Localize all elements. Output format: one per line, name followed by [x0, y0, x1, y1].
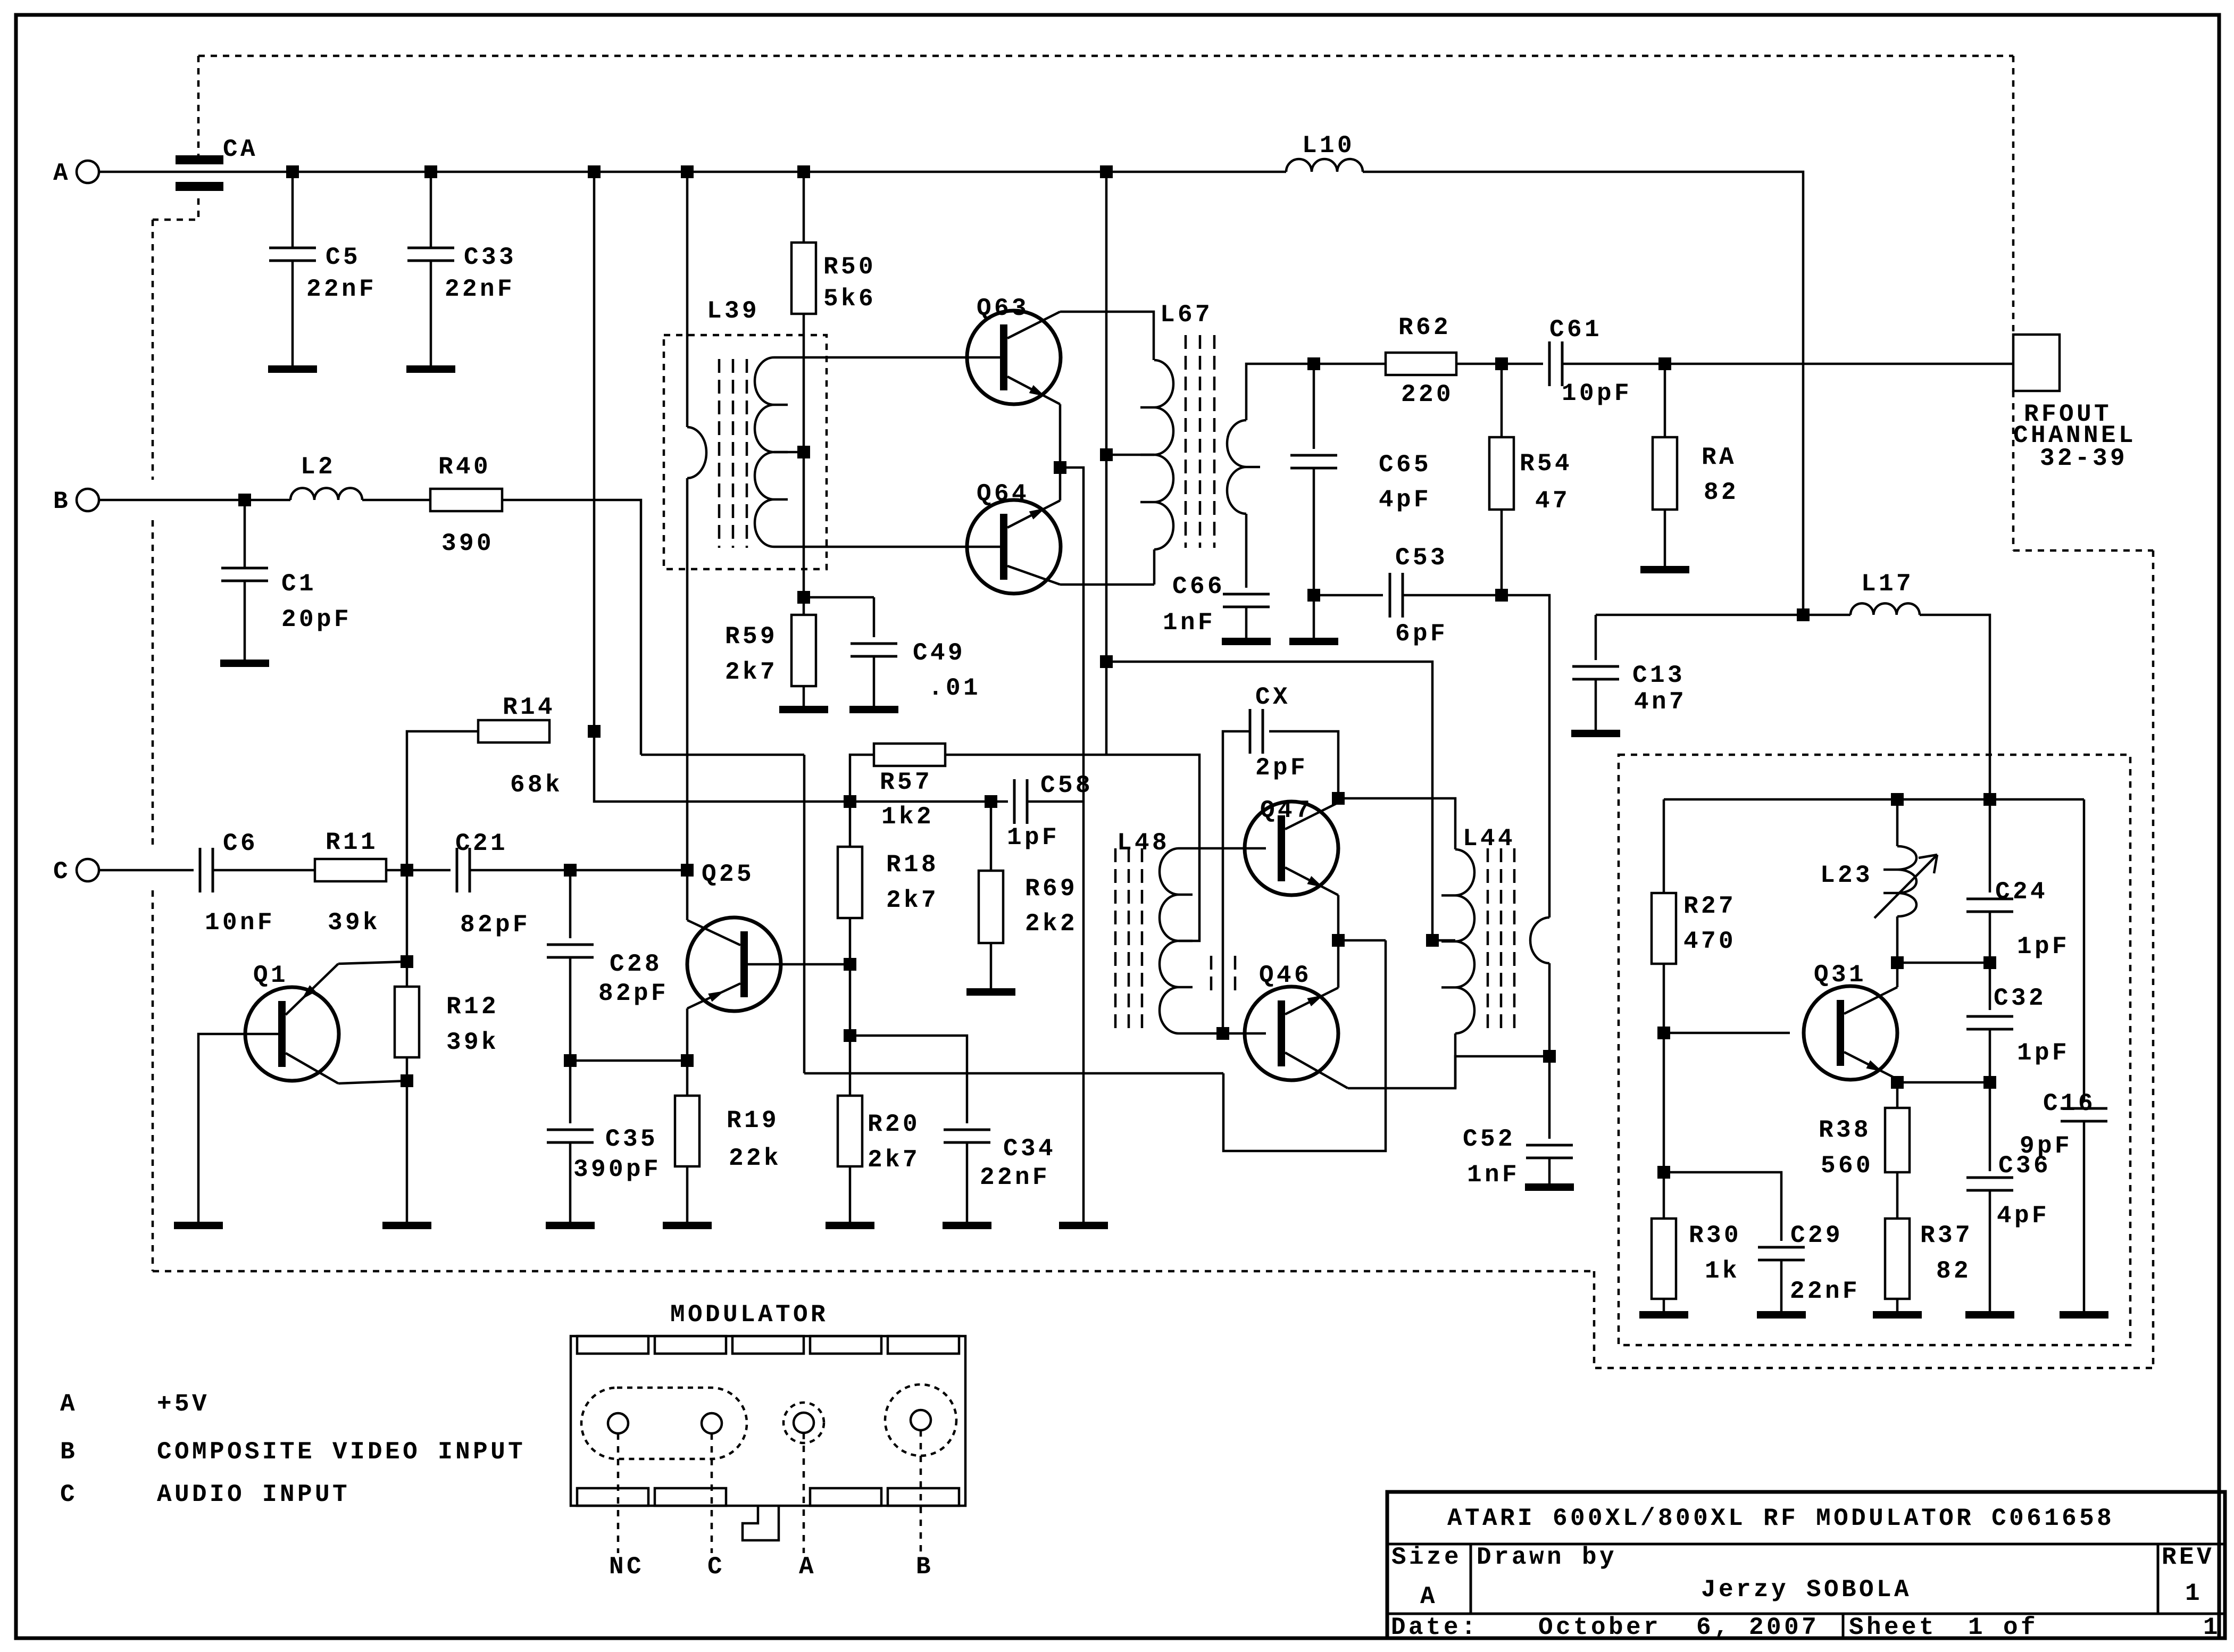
svg-text:22k: 22k [729, 1145, 781, 1172]
node C52 junction [1543, 1050, 1556, 1063]
resistor R38 [1885, 1108, 1910, 1172]
inductor L2 [290, 488, 362, 500]
ground C16 [2060, 1311, 2108, 1319]
capacitor C36 [1989, 1082, 1991, 1171]
wire R62 to C61 [1456, 363, 1543, 365]
svg-text:2k7: 2k7 [725, 658, 778, 686]
svg-text:Q63: Q63 [977, 295, 1029, 322]
resistor R69 [990, 802, 993, 871]
svg-text:470: 470 [1683, 928, 1736, 955]
wire Q47 emitter to Q46 [1337, 895, 1340, 988]
node C32-C36 junction [1983, 1076, 1996, 1089]
svg-text:1k: 1k [1705, 1257, 1740, 1285]
svg-text:C52: C52 [1463, 1125, 1515, 1153]
node Q31 base junction [1657, 1027, 1670, 1039]
modulator package outline [571, 1336, 965, 1506]
svg-text:390pF: 390pF [573, 1156, 661, 1183]
svg-text:+5V: +5V [157, 1390, 210, 1418]
ground C49 [849, 706, 898, 713]
wire Q63 emitter down [1059, 404, 1062, 468]
transistor Q46 [1245, 987, 1338, 1080]
svg-text:R69: R69 [1025, 875, 1078, 903]
wire +5V to L67 center tap [1105, 172, 1108, 755]
title block frame [1387, 1492, 2225, 1638]
svg-text:47: 47 [1535, 487, 1570, 515]
wire Q1 emitter to R12 bottom [338, 1081, 407, 1083]
svg-text:RA: RA [1702, 444, 1737, 471]
node C65 junction [1307, 357, 1320, 370]
wire L44 bottom [1454, 1033, 1457, 1088]
wire A rail to right elbow [1363, 172, 1803, 615]
transistor Q1 [245, 987, 339, 1081]
inductor L39 secondary winding [755, 357, 774, 547]
wire R57 right to L48 tap [945, 755, 1199, 941]
wire Q64 collector up [1059, 468, 1062, 500]
node L23 top [1891, 793, 1904, 806]
svg-text:1 of: 1 of [1968, 1614, 2038, 1641]
transistor Q25 [687, 917, 781, 1011]
svg-text:R50: R50 [823, 253, 876, 281]
svg-text:39k: 39k [446, 1029, 499, 1056]
shield dashed line right side [2152, 550, 2155, 1368]
node L39 center tap junction [797, 446, 810, 458]
svg-text:C35: C35 [605, 1125, 658, 1153]
capacitor C53 [1389, 573, 1391, 618]
wire L44 secondary down [1548, 963, 1551, 1139]
svg-text:22nF: 22nF [980, 1164, 1050, 1191]
node R20 top junction [844, 1029, 856, 1042]
wire C28/C35 node to Q25 emitter node [570, 1059, 687, 1062]
node C53-R54 junction [1495, 589, 1508, 602]
wire R62 input [1314, 363, 1386, 365]
wire L67 secondary bottom to C66 [1245, 514, 1248, 588]
resistor R37 [1885, 1219, 1910, 1299]
svg-text:Date:: Date: [1391, 1614, 1479, 1641]
svg-text:390: 390 [441, 530, 494, 557]
ground C33 [406, 365, 455, 373]
wire R27 to R30 chain [1663, 964, 1665, 1219]
coupling core dashes [1210, 956, 1213, 994]
ground R12 [382, 1222, 431, 1229]
ground C52 [1525, 1183, 1574, 1191]
svg-text:R14: R14 [503, 694, 555, 721]
node R59-C49 junction [797, 591, 810, 604]
svg-text:NC: NC [609, 1553, 644, 1581]
ground R37 [1873, 1311, 1922, 1319]
capacitor C32 [1989, 963, 1991, 1010]
node bias rail R69 [985, 795, 997, 808]
wire R40 to corner [502, 500, 641, 755]
wire oscillator right side [2083, 799, 2086, 1102]
svg-text:ATARI 600XL/800XL RF MODULATOR: ATARI 600XL/800XL RF MODULATOR C061658 [1447, 1505, 2114, 1532]
wire rail to R27 [1663, 799, 1665, 893]
node A-C5 junction [286, 165, 299, 178]
wire R38 to R37 [1896, 1172, 1899, 1219]
shield dashed line bottom [153, 1270, 1594, 1273]
svg-text:A: A [60, 1390, 78, 1418]
svg-text:22nF: 22nF [306, 276, 377, 303]
modulator pin B [885, 1384, 956, 1456]
resistor R27 [1652, 893, 1676, 964]
wire L17 to oscillator [1920, 615, 1990, 799]
node C24-C32 junction [1983, 956, 1996, 969]
wire R14 node down to bias rail [594, 731, 850, 802]
modulator pin NC [608, 1413, 628, 1433]
svg-text:82pF: 82pF [598, 980, 669, 1007]
node bias rail R57 [844, 795, 856, 808]
oscillator dashed box [1619, 755, 2130, 1345]
svg-text:C53: C53 [1395, 544, 1448, 572]
node L44 tap junction [1426, 934, 1439, 947]
svg-text:32-39: 32-39 [2040, 445, 2128, 472]
node L17 junction [1797, 608, 1810, 621]
node R62-R54 junction [1495, 357, 1508, 370]
title block REV divider [2157, 1544, 2160, 1614]
svg-text:2pF: 2pF [1255, 754, 1308, 782]
svg-text:R57: R57 [880, 769, 932, 796]
svg-text:2k7: 2k7 [868, 1146, 920, 1174]
wire Q47 collector to L44 [1338, 798, 1455, 849]
L23 adjuster arrow [1874, 855, 1937, 918]
svg-text:1pF: 1pF [2017, 1039, 2070, 1067]
resistor R54 [1501, 364, 1503, 437]
wire L67 secondary top [1246, 364, 1314, 420]
node C-L39 junction [681, 864, 694, 877]
title block size divider [1470, 1544, 1472, 1614]
svg-text:L48: L48 [1117, 829, 1170, 857]
svg-text:Q1: Q1 [253, 962, 288, 989]
wire Q1 base to ground [198, 1034, 278, 1222]
capacitor C52 [1526, 1144, 1573, 1147]
svg-text:1: 1 [2203, 1614, 2221, 1641]
node L48-CX junction [1216, 1027, 1229, 1040]
capacitor C61 [1548, 341, 1551, 386]
inductor L17 [1850, 603, 1920, 615]
wire R50 through L39 to R59 [803, 314, 805, 615]
transformer L39 dashed box [664, 335, 827, 569]
wire L44 center tap [1432, 939, 1455, 942]
ground modulator rail [1059, 1222, 1108, 1229]
wire oscillator feed [1596, 614, 1850, 616]
wire input B [99, 499, 245, 502]
ground C65 [1289, 638, 1338, 645]
svg-text:4pF: 4pF [1379, 486, 1431, 514]
svg-text:560: 560 [1821, 1152, 1873, 1180]
node C65-C53 junction [1307, 589, 1320, 602]
svg-text:Size: Size [1391, 1543, 1462, 1571]
shield dashed segment above CA [197, 56, 200, 165]
svg-text:1nF: 1nF [1163, 609, 1215, 637]
svg-text:L2: L2 [301, 453, 336, 481]
svg-text:A: A [1420, 1583, 1438, 1611]
shield dashed line top [198, 55, 2013, 57]
modulator oval opening [581, 1388, 747, 1459]
capacitor C29 [1758, 1246, 1805, 1249]
svg-text:5k6: 5k6 [823, 285, 876, 313]
svg-text:R37: R37 [1920, 1222, 1973, 1249]
node A-R50 branch [797, 165, 810, 178]
svg-text:Sheet: Sheet [1849, 1614, 1937, 1641]
wire C53 node to L44 secondary [1502, 595, 1549, 917]
inductor L39 primary winding [687, 427, 706, 478]
shield dashed line left side [152, 220, 154, 480]
svg-text:9pF: 9pF [2020, 1132, 2072, 1160]
svg-text:82: 82 [1936, 1257, 1971, 1285]
resistor RA [1664, 364, 1666, 437]
wire R14 left elbow down to C rail [407, 731, 478, 870]
wire R57 left stub [850, 755, 874, 802]
wire video path vertical [641, 754, 804, 756]
svg-text:AUDIO INPUT: AUDIO INPUT [157, 1481, 350, 1508]
svg-text:82pF: 82pF [460, 911, 530, 939]
wire Q63 collector to L67 [1060, 312, 1154, 360]
node A-L39 primary [681, 165, 694, 178]
svg-text:4n7: 4n7 [1634, 688, 1687, 716]
svg-text:C24: C24 [1995, 878, 2048, 906]
node C28-C35 junction [564, 1054, 577, 1067]
svg-text:R40: R40 [438, 453, 491, 481]
svg-text:L44: L44 [1463, 825, 1515, 853]
ground C13 [1571, 730, 1620, 737]
svg-text:L67: L67 [1160, 301, 1213, 329]
svg-text:R12: R12 [446, 993, 499, 1021]
capacitor C58 [991, 800, 1008, 803]
svg-text:C49: C49 [913, 639, 965, 667]
svg-text:Q47: Q47 [1260, 797, 1313, 824]
node A-R14 branch [588, 165, 601, 178]
ground C35 [546, 1222, 595, 1229]
terminal A [77, 161, 99, 183]
resistor R30 [1652, 1219, 1676, 1299]
svg-text:68k: 68k [510, 771, 563, 799]
wire A to R50 [803, 172, 805, 243]
node A-C33 junction [424, 165, 437, 178]
wire emitter node to video rail [1338, 939, 1386, 942]
node R12 bottom junction [401, 1074, 413, 1087]
svg-text:R27: R27 [1683, 892, 1736, 920]
svg-text:C6: C6 [223, 830, 258, 857]
node R14 right junction [588, 725, 601, 738]
svg-text:C28: C28 [610, 950, 662, 978]
transformer L44 core [1487, 848, 1489, 1033]
wire input C [99, 869, 194, 872]
title block sheet divider [1842, 1614, 1845, 1638]
svg-text:C13: C13 [1632, 662, 1685, 689]
node common emitter junction [1332, 934, 1345, 947]
resistor R50 [791, 243, 816, 314]
node C61-RA junction [1658, 357, 1671, 370]
resistor R57 [874, 744, 945, 766]
wire L39 to Q63 base [774, 356, 1000, 359]
wire Q64 emitter to L67 bottom [1060, 583, 1154, 586]
wire C53 to R54 node [1403, 594, 1502, 597]
node Q47 collector junction [1332, 792, 1345, 805]
capacitor C33 [430, 172, 432, 248]
modulator top tabs [577, 1336, 648, 1354]
svg-text:1: 1 [2185, 1580, 2203, 1607]
ground R20 [826, 1222, 874, 1229]
svg-text:C65: C65 [1379, 451, 1431, 479]
svg-text:C: C [53, 858, 71, 886]
wire A to R14 [593, 172, 596, 731]
wire video path bottom rail [804, 1072, 1223, 1075]
transformer L67 core [1185, 335, 1187, 548]
resistor R20 [838, 1096, 862, 1166]
capacitor C16 [2061, 1107, 2107, 1110]
shield dashed jog near oscillator [1594, 1271, 2153, 1368]
svg-text:1nF: 1nF [1467, 1161, 1520, 1189]
shield dashed jog to RFOUT [2013, 549, 2153, 552]
capacitor C21 [456, 848, 459, 892]
node L23 bottom junction [1891, 956, 1904, 969]
svg-text:Q46: Q46 [1259, 962, 1312, 989]
wire video to modulator [1223, 940, 1386, 1151]
resistor R19 [675, 1096, 699, 1166]
svg-text:4pF: 4pF [1997, 1202, 2049, 1230]
wire L48 bottom rail [1179, 1032, 1266, 1035]
wire +5V to L44 center tap [1106, 662, 1432, 940]
svg-text:39k: 39k [328, 909, 380, 937]
svg-text:22nF: 22nF [445, 276, 515, 303]
resistor R18 [849, 802, 852, 847]
wire L23 to C24 node [1897, 962, 1990, 964]
resistor R62 [1386, 353, 1456, 375]
svg-text:.01: .01 [928, 674, 981, 702]
modulator bottom tabs [577, 1488, 648, 1506]
svg-text:20pF: 20pF [281, 606, 352, 633]
transistor Q31 [1804, 986, 1897, 1080]
svg-text:220: 220 [1401, 381, 1454, 408]
inductor L67 secondary winding [1227, 420, 1246, 514]
wire +5V rail A [99, 171, 1286, 173]
svg-text:A: A [53, 160, 71, 187]
svg-text:R18: R18 [886, 851, 939, 879]
inductor L10 [1286, 159, 1363, 172]
resistor R12 [406, 962, 409, 987]
svg-text:1pF: 1pF [1007, 824, 1060, 852]
RFOUT connector box [2013, 335, 2060, 391]
node Q25 emitter junction [681, 1054, 694, 1067]
inductor L67 primary winding [1154, 360, 1173, 549]
svg-text:A: A [799, 1553, 816, 1581]
wire C node down to R12 [406, 870, 409, 962]
wire L2 to R40 [362, 499, 430, 502]
svg-text:C61: C61 [1549, 316, 1602, 344]
wire emitter rail [1897, 1081, 1990, 1084]
transformer L48 core [1114, 848, 1117, 1033]
svg-text:R11: R11 [326, 829, 378, 856]
ground C1 [220, 660, 269, 667]
wire R12 to ground [406, 1081, 409, 1222]
capacitor C1 [244, 500, 246, 568]
svg-text:October 6, 2007: October 6, 2007 [1538, 1614, 1819, 1641]
wire C6 to R11 [213, 869, 315, 872]
svg-text:1pF: 1pF [2017, 933, 2070, 961]
wire video path down [803, 755, 806, 1073]
svg-text:C: C [60, 1481, 78, 1508]
svg-text:C58: C58 [1040, 772, 1093, 799]
wire C65 node to C53 [1314, 594, 1383, 597]
svg-text:C16: C16 [2043, 1090, 2096, 1117]
ground C5 [268, 365, 317, 373]
wire Q31 collector [1896, 963, 1899, 987]
wire junction to ground rail [1060, 468, 1083, 1222]
svg-text:10nF: 10nF [205, 909, 275, 937]
wire to C34 [850, 1036, 967, 1123]
wire Q31 base [1664, 1032, 1790, 1034]
wire Q46 collector to C52 [1348, 1056, 1543, 1088]
ground C29 [1757, 1311, 1806, 1319]
resistor R59 [791, 615, 816, 686]
wire L39 to Q64 base [774, 546, 1000, 548]
wire bias rail [850, 800, 985, 803]
node R12 top junction [401, 955, 413, 968]
node R30-C29 junction [1657, 1166, 1670, 1179]
wire oscillator top rail [1664, 798, 2084, 801]
node Q63/Q64 junction [1054, 461, 1066, 474]
svg-text:R54: R54 [1520, 450, 1572, 478]
capacitor C66 [1223, 593, 1270, 596]
svg-text:C29: C29 [1790, 1222, 1843, 1249]
inductor L44 primary winding [1455, 849, 1474, 1033]
transistor Q63 [967, 311, 1061, 404]
svg-text:COMPOSITE VIDEO INPUT: COMPOSITE VIDEO INPUT [157, 1438, 526, 1466]
node B-C1 junction [238, 494, 251, 506]
capacitor CX [1269, 731, 1338, 803]
svg-text:C1: C1 [281, 570, 316, 598]
svg-text:Drawn by: Drawn by [1477, 1543, 1617, 1571]
svg-text:C21: C21 [455, 830, 508, 857]
capacitor C65 [1313, 364, 1315, 449]
title block row line 1 [1387, 1543, 2225, 1546]
svg-text:22nF: 22nF [1790, 1278, 1860, 1305]
svg-text:CX: CX [1255, 683, 1290, 711]
svg-text:82: 82 [1704, 479, 1739, 506]
wire L48 top to Q47 base [1179, 847, 1266, 850]
wire tap to winding [1106, 454, 1154, 456]
wire C21 to node [470, 869, 570, 872]
wire Q25 emitter down to node [686, 1008, 689, 1061]
svg-text:L17: L17 [1861, 570, 1914, 598]
transformer L39 core [718, 359, 721, 548]
title block row line 2 [1387, 1613, 2225, 1615]
inductor L48 winding [1160, 848, 1179, 1033]
inductor L23 variable [1896, 799, 1899, 846]
modulator pin C [702, 1413, 722, 1433]
inductor L44 secondary winding [1530, 917, 1549, 963]
resistor R40 [430, 489, 502, 511]
svg-text:R62: R62 [1398, 314, 1451, 341]
svg-text:B: B [60, 1438, 78, 1466]
wire Q25 base to bias divider [741, 963, 850, 966]
svg-text:C33: C33 [464, 244, 516, 271]
wire R11 to node [386, 869, 407, 872]
wire to C49 [804, 596, 874, 599]
svg-text:C34: C34 [1003, 1135, 1056, 1163]
svg-text:Q31: Q31 [1814, 961, 1866, 989]
ground RA [1640, 566, 1689, 573]
wire node to C21 [407, 869, 451, 872]
svg-text:C: C [707, 1553, 725, 1581]
svg-text:Q25: Q25 [702, 861, 754, 888]
svg-text:Jerzy SOBOLA: Jerzy SOBOLA [1701, 1576, 1912, 1604]
ground C34 [943, 1222, 991, 1229]
ground R19 [663, 1222, 712, 1229]
svg-text:L23: L23 [1820, 862, 1873, 889]
capacitor C5 [291, 172, 294, 248]
resistor R14 [478, 720, 549, 742]
ground R30 [1639, 1311, 1688, 1319]
